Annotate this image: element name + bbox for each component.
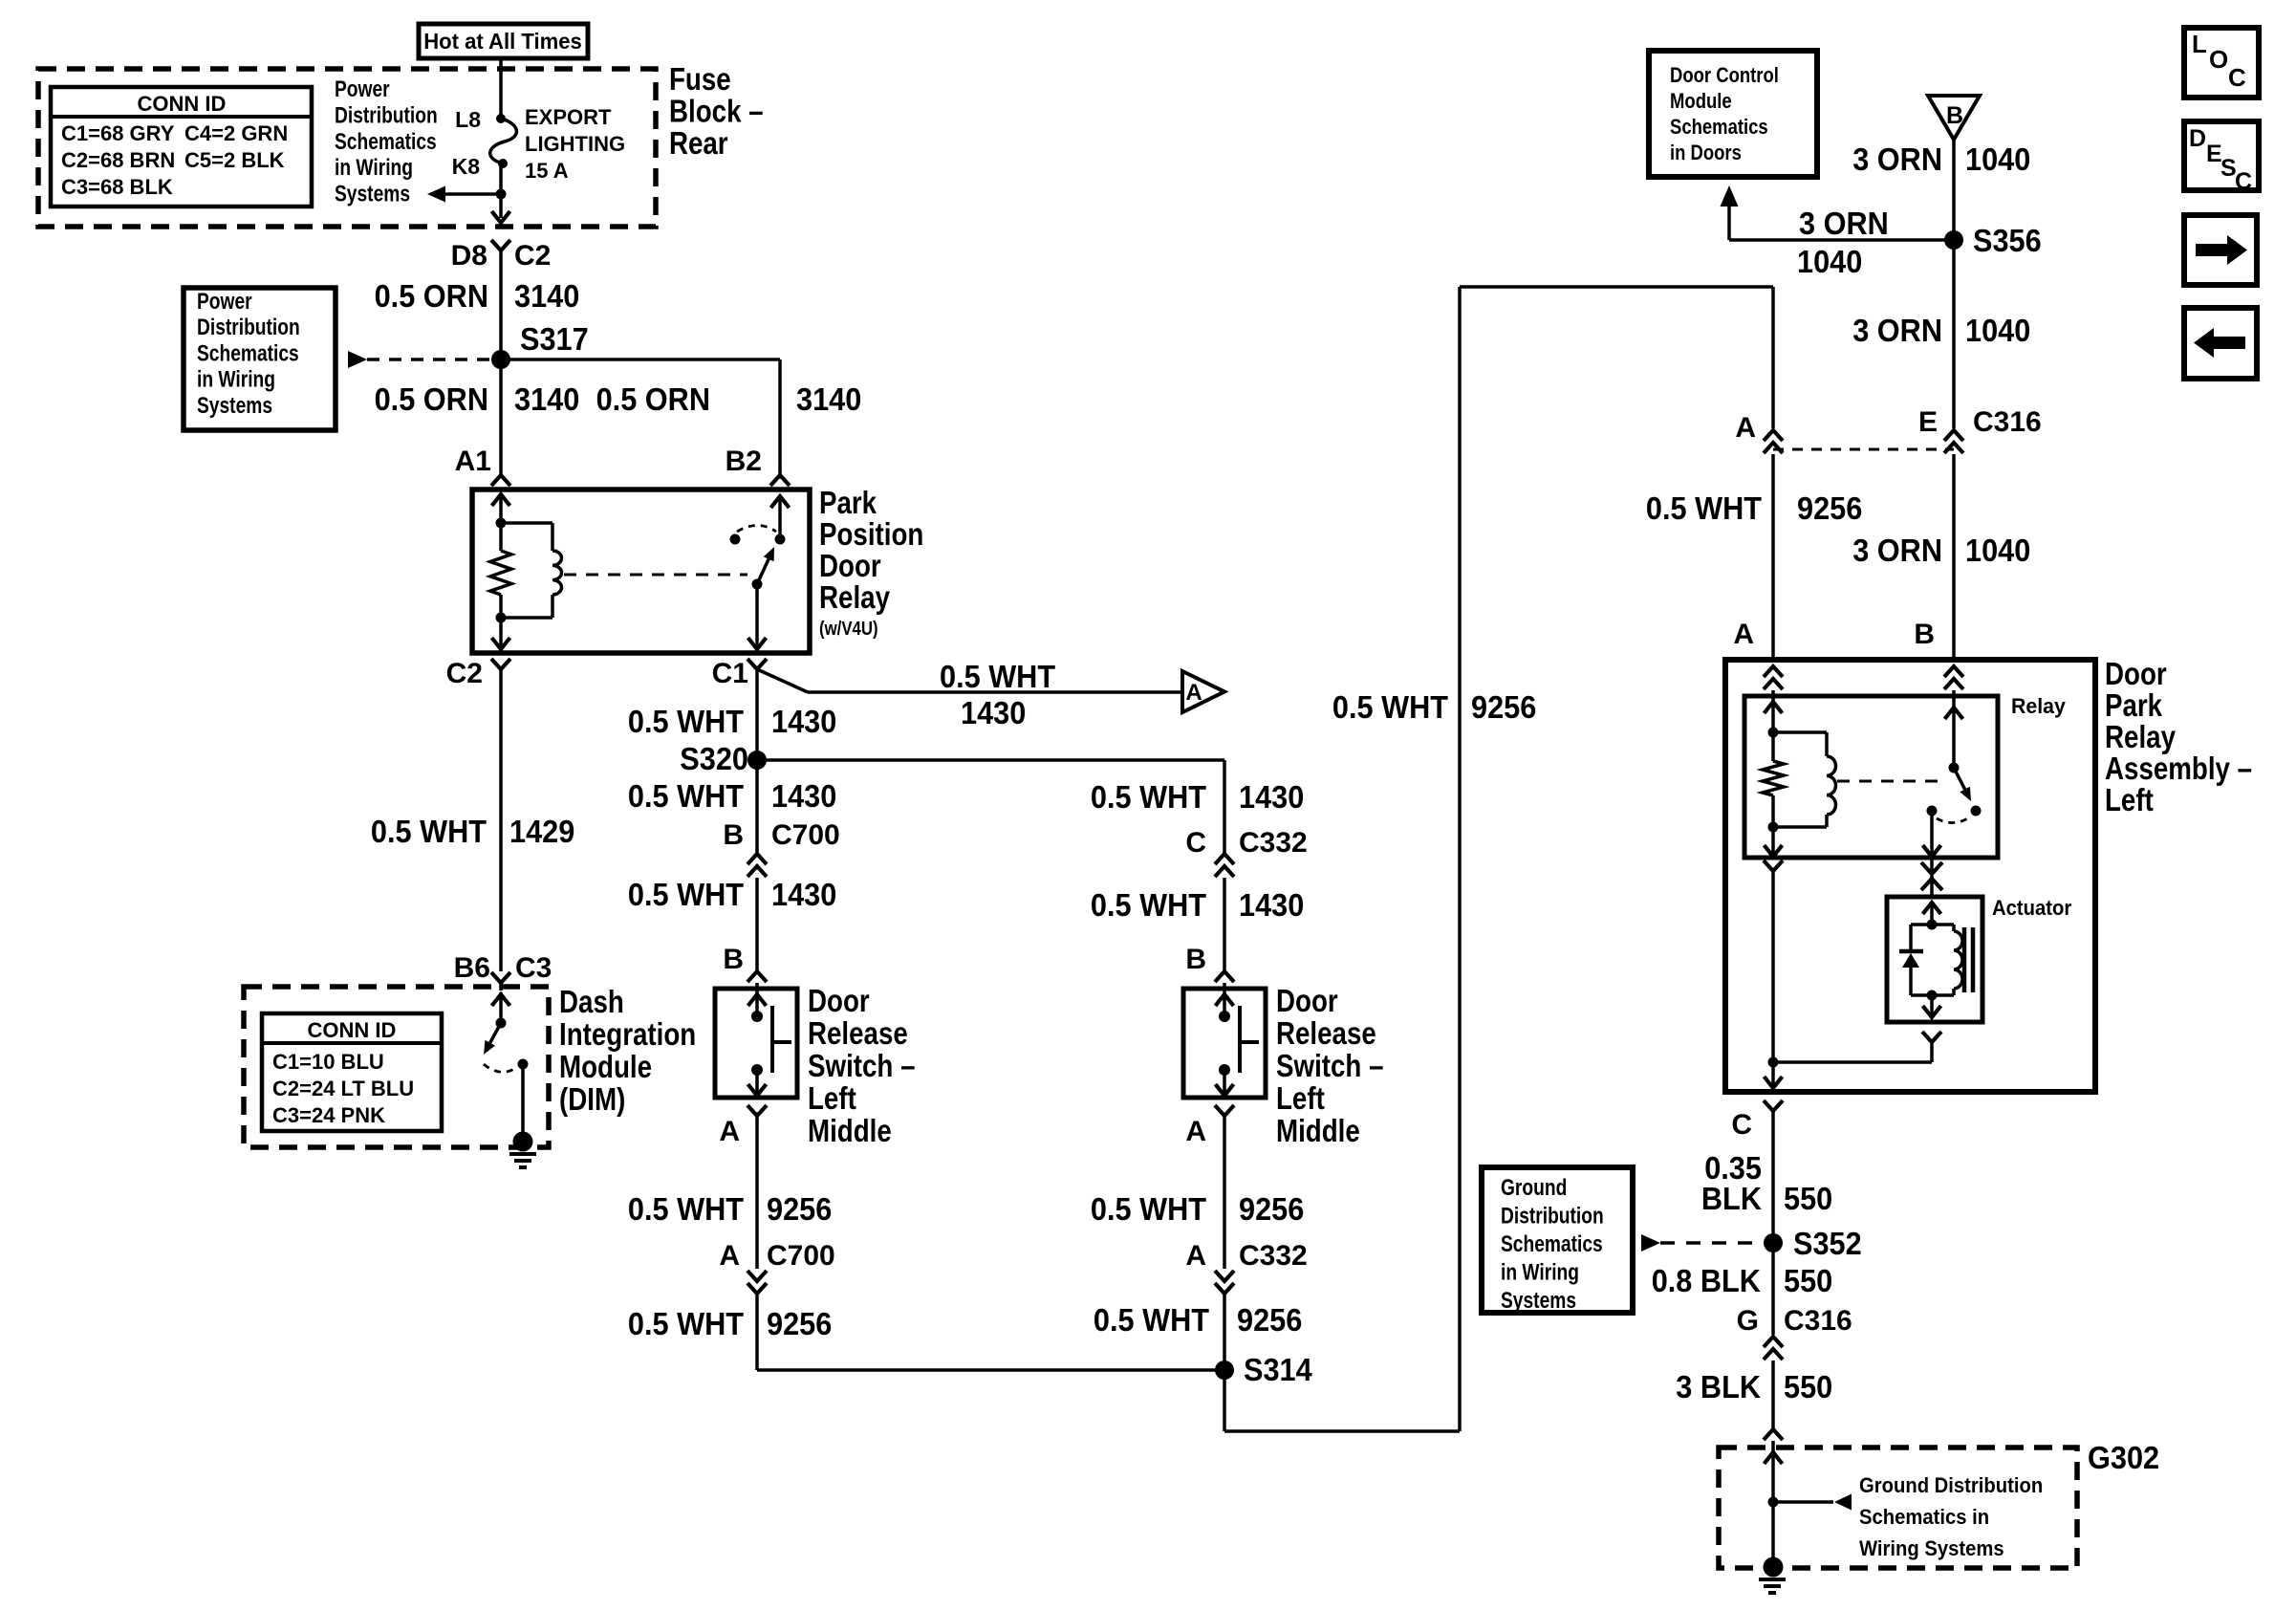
svg-text:C1=68 GRY: C1=68 GRY bbox=[61, 121, 175, 145]
actuator core bars bbox=[1962, 927, 1967, 992]
svg-text:0.5 WHT: 0.5 WHT bbox=[1091, 887, 1206, 923]
wire: C1 diagonal to 1430 branch bbox=[757, 669, 808, 692]
svg-text:Relay: Relay bbox=[2011, 694, 2067, 718]
svg-text:Schematics: Schematics bbox=[1501, 1231, 1603, 1257]
svg-text:Middle: Middle bbox=[808, 1113, 892, 1148]
svg-text:L: L bbox=[2192, 30, 2207, 58]
wire: right switch A down to C332 bbox=[1223, 1116, 1226, 1269]
connector chevron: fuse block bottom (D8/C2) bbox=[491, 240, 510, 250]
svg-text:C3=24 PNK: C3=24 PNK bbox=[272, 1103, 385, 1127]
svg-text:550: 550 bbox=[1784, 1181, 1832, 1216]
svg-text:Power: Power bbox=[197, 289, 252, 315]
svg-text:9256: 9256 bbox=[1797, 490, 1862, 526]
off-page connector triangle B bbox=[1928, 96, 1980, 140]
svg-text:in Wiring: in Wiring bbox=[1501, 1260, 1579, 1286]
wire: 0.5 ORN 3140 (fuse to S317) bbox=[499, 250, 503, 359]
junction in fuse block bbox=[496, 189, 507, 200]
svg-text:C: C bbox=[2235, 168, 2252, 195]
svg-text:Hot at All Times: Hot at All Times bbox=[423, 29, 582, 54]
wire: S320 right branch to C332 drop bbox=[757, 758, 1224, 762]
svg-text:0.5 WHT: 0.5 WHT bbox=[1094, 1302, 1209, 1338]
svg-text:Left: Left bbox=[808, 1080, 856, 1116]
relay switch contact dot (B2) bbox=[775, 534, 786, 545]
relay switch arm with arrowhead bbox=[752, 579, 763, 590]
svg-text:C700: C700 bbox=[767, 1240, 835, 1272]
svg-text:Switch –: Switch – bbox=[808, 1048, 916, 1083]
DIM switch travel dashed arc bbox=[484, 1064, 517, 1072]
wire: branch down to relay pin B2 bbox=[778, 359, 782, 475]
switch terminal arrow (top) bbox=[748, 994, 767, 1006]
svg-text:Door: Door bbox=[2105, 656, 2167, 691]
svg-text:K8: K8 bbox=[452, 154, 481, 179]
svg-text:0.5 WHT: 0.5 WHT bbox=[1332, 689, 1448, 725]
svg-text:C2=68 BRN: C2=68 BRN bbox=[61, 148, 175, 172]
svg-text:Left: Left bbox=[2105, 782, 2154, 817]
relay switch common to C1 bbox=[755, 584, 759, 649]
svg-text:Module: Module bbox=[1670, 89, 1732, 113]
svg-text:Relay: Relay bbox=[2105, 719, 2177, 754]
internal connector chevron (coil return) bbox=[1764, 860, 1783, 871]
splice S320 bbox=[747, 751, 767, 770]
connector chevron B (switch right) bbox=[1215, 971, 1234, 982]
inline connector C316 pin G (double chevron) bbox=[1764, 1337, 1783, 1347]
svg-text:A: A bbox=[1735, 412, 1756, 444]
svg-text:C: C bbox=[1185, 827, 1206, 859]
svg-text:C316: C316 bbox=[1784, 1305, 1852, 1337]
svg-text:C316: C316 bbox=[1973, 406, 2042, 438]
svg-text:A: A bbox=[1185, 1240, 1206, 1272]
inline connector C700 lower (double chevron down) bbox=[747, 1271, 767, 1281]
switch bottom terminal dot (right) bbox=[1219, 1064, 1230, 1076]
assembly connector chevron A bbox=[1764, 666, 1783, 677]
svg-text:S314: S314 bbox=[1244, 1352, 1312, 1387]
assembly connector chevron B bbox=[1944, 666, 1963, 677]
svg-text:C: C bbox=[1731, 1109, 1752, 1141]
svg-text:A: A bbox=[1733, 619, 1754, 650]
svg-text:D8: D8 bbox=[451, 240, 487, 272]
svg-text:A: A bbox=[1185, 680, 1202, 706]
svg-text:0.5 WHT: 0.5 WHT bbox=[628, 1191, 744, 1227]
splice S356 bbox=[1944, 230, 1963, 250]
wire: S317 right branch bbox=[501, 358, 780, 361]
svg-text:B: B bbox=[723, 819, 744, 851]
relay switch contact dots (assembly) bbox=[1971, 806, 1982, 816]
svg-text:3140: 3140 bbox=[796, 381, 861, 417]
actuator box bbox=[1887, 897, 1982, 1022]
note box: Door Control Module Schematics in Doors bbox=[1649, 51, 1817, 177]
svg-text:1430: 1430 bbox=[961, 695, 1026, 730]
note box: Power Distribution Schematics in Wiring Systems (S317) bbox=[184, 288, 336, 430]
svg-text:A: A bbox=[1185, 1116, 1206, 1147]
actuator exit chevron bbox=[1922, 1032, 1941, 1042]
svg-text:Block –: Block – bbox=[669, 94, 764, 129]
switch box: Door Release Switch - Left Middle (right) bbox=[1183, 989, 1266, 1098]
svg-text:C4=2 GRN: C4=2 GRN bbox=[184, 121, 288, 145]
svg-text:S317: S317 bbox=[520, 321, 589, 357]
DIM switch pivot dot bbox=[496, 1018, 507, 1029]
svg-text:LIGHTING: LIGHTING bbox=[525, 132, 625, 156]
svg-text:Wiring Systems: Wiring Systems bbox=[1859, 1536, 2004, 1560]
svg-text:0.5 WHT: 0.5 WHT bbox=[628, 877, 744, 912]
relay box: Park Position Door Relay bbox=[472, 490, 810, 653]
svg-text:Rear: Rear bbox=[669, 125, 728, 161]
connector chevron B2 bbox=[770, 475, 790, 486]
svg-text:1430: 1430 bbox=[771, 704, 836, 739]
wire: rail top to A drop bbox=[1460, 285, 1773, 289]
svg-text:G: G bbox=[1737, 1305, 1759, 1337]
connector chevron A1 bbox=[491, 475, 510, 486]
connector chevron A (below right switch) bbox=[1215, 1105, 1234, 1116]
fuse EXPORT LIGHTING 15A - pin L8 bbox=[496, 114, 506, 123]
svg-text:Schematics: Schematics bbox=[1670, 115, 1768, 139]
legend icon: DESC bbox=[2184, 121, 2259, 190]
svg-text:550: 550 bbox=[1784, 1263, 1832, 1298]
relay coil (assembly) bbox=[1773, 730, 1827, 734]
relay coil feed arrow (A1) bbox=[492, 494, 510, 506]
off-page connector triangle A bbox=[1182, 671, 1224, 712]
svg-text:S320: S320 bbox=[680, 741, 748, 776]
svg-text:C332: C332 bbox=[1239, 1240, 1308, 1272]
relay coil bottom node (assembly) bbox=[1768, 822, 1779, 833]
switch bottom terminal dot bbox=[751, 1064, 763, 1076]
relay coil top node bbox=[496, 518, 507, 529]
switch terminal arrow (top, right switch) bbox=[1216, 994, 1234, 1006]
svg-text:Switch –: Switch – bbox=[1276, 1048, 1384, 1083]
svg-text:Schematics: Schematics bbox=[335, 129, 437, 155]
relay coil (parallel) bbox=[501, 521, 552, 525]
internal connector X (relay to actuator) bbox=[1930, 858, 1934, 897]
svg-text:Schematics: Schematics bbox=[197, 340, 299, 366]
svg-text:15 A: 15 A bbox=[525, 159, 569, 183]
fuse pin K8 bbox=[498, 159, 508, 168]
wire: C2 down to DIM bbox=[499, 669, 503, 971]
svg-text:C5=2 BLK: C5=2 BLK bbox=[184, 148, 285, 172]
wire: drop to C316 pin A bbox=[1771, 287, 1775, 428]
relay switch common down (assembly) bbox=[1930, 811, 1934, 857]
svg-text:C1=10 BLU: C1=10 BLU bbox=[272, 1050, 384, 1074]
svg-text:3 BLK: 3 BLK bbox=[1676, 1369, 1761, 1404]
svg-text:Door: Door bbox=[1276, 983, 1338, 1018]
relay coil return arrow (C2) bbox=[499, 618, 503, 649]
svg-text:Park: Park bbox=[819, 485, 877, 520]
switch bottom arrow bbox=[755, 1070, 759, 1096]
actuator bottom arrow bbox=[1930, 995, 1934, 1017]
svg-text:Dash: Dash bbox=[559, 984, 624, 1019]
svg-text:3140: 3140 bbox=[514, 278, 579, 314]
svg-text:3140: 3140 bbox=[514, 381, 579, 417]
svg-text:Position: Position bbox=[819, 516, 923, 552]
relay switch pivot dot (assembly) bbox=[1949, 763, 1960, 773]
svg-text:0.5 WHT: 0.5 WHT bbox=[628, 778, 744, 814]
connector chevron C1 bbox=[747, 659, 767, 669]
arrowhead: ground note link bbox=[1834, 1494, 1852, 1511]
wire: C1 down to S320 bbox=[755, 669, 759, 760]
wire: S314 down and right to rail bbox=[1223, 1370, 1226, 1431]
svg-text:C2: C2 bbox=[514, 240, 551, 272]
svg-text:C700: C700 bbox=[771, 819, 840, 851]
svg-text:1040: 1040 bbox=[1965, 142, 2030, 177]
svg-text:1430: 1430 bbox=[1239, 779, 1304, 815]
svg-text:C1: C1 bbox=[712, 658, 748, 689]
svg-text:1430: 1430 bbox=[771, 877, 836, 912]
svg-text:S356: S356 bbox=[1973, 223, 2042, 258]
svg-text:9256: 9256 bbox=[767, 1306, 832, 1341]
svg-text:G302: G302 bbox=[2088, 1440, 2159, 1475]
svg-text:A: A bbox=[719, 1240, 740, 1272]
relay coil top node (assembly) bbox=[1768, 728, 1779, 738]
inline connector C700 (double chevron) bbox=[755, 760, 759, 854]
svg-text:E: E bbox=[1918, 406, 1938, 438]
ground terminal dot bbox=[1764, 1557, 1784, 1578]
svg-text:3 ORN: 3 ORN bbox=[1852, 142, 1942, 177]
svg-text:3 ORN: 3 ORN bbox=[1852, 533, 1942, 568]
svg-text:Door: Door bbox=[819, 548, 881, 583]
wire: battery feed into fuse block bbox=[499, 58, 503, 119]
relay switch travel dashed arc (assembly) bbox=[1937, 816, 1971, 823]
connector table CONN ID (fuse block) bbox=[51, 87, 312, 207]
module dashed box: Dash Integration Module (DIM) bbox=[244, 987, 549, 1147]
svg-text:B: B bbox=[1185, 944, 1206, 975]
wire: C332 to S314 bbox=[1223, 1294, 1226, 1370]
svg-text:(w/V4U): (w/V4U) bbox=[819, 619, 878, 640]
dashed connector line C316 bbox=[1773, 448, 1954, 451]
wire: S317 down to relay pin A1 bbox=[499, 359, 503, 475]
relay coil return arrow (assembly) bbox=[1771, 827, 1775, 857]
DIM switch contact dot bbox=[518, 1059, 529, 1070]
svg-text:in Wiring: in Wiring bbox=[197, 367, 275, 393]
svg-text:C3: C3 bbox=[515, 952, 552, 984]
inline connector C316 pin E (double chevron) bbox=[1944, 430, 1963, 441]
svg-text:Distribution: Distribution bbox=[1501, 1204, 1604, 1230]
relay resistor (assembly) bbox=[1771, 732, 1775, 761]
actuator diode bbox=[1911, 923, 1932, 926]
svg-text:Door Control: Door Control bbox=[1670, 63, 1779, 87]
wire: tap to Power Distribution Schematics (left arrow) bbox=[444, 192, 501, 196]
assembly exit arrow (C) bbox=[1771, 1062, 1775, 1088]
svg-text:9256: 9256 bbox=[1471, 689, 1536, 725]
relay switch NC contact dot bbox=[730, 534, 741, 545]
svg-text:S352: S352 bbox=[1793, 1226, 1862, 1261]
svg-text:C3=68 BLK: C3=68 BLK bbox=[61, 175, 173, 199]
relay actuation dashed link bbox=[564, 574, 747, 577]
note box: Ground Distribution Schematics in Wiring Systems bbox=[1482, 1167, 1633, 1313]
connector chevron B6/C3 bbox=[491, 972, 510, 983]
relay box (assembly inner) bbox=[1744, 696, 1998, 858]
splice S317 bbox=[491, 350, 510, 369]
wire: S356 left to Door Control Module bbox=[1729, 238, 1954, 242]
fuse block dashed box: Fuse Block - Rear bbox=[38, 69, 656, 227]
svg-text:3 ORN: 3 ORN bbox=[1852, 313, 1942, 348]
DIM switch entry arrow bbox=[492, 994, 510, 1006]
relay switch travel dashed arc bbox=[737, 526, 776, 533]
svg-text:Distribution: Distribution bbox=[335, 102, 438, 128]
svg-text:in Wiring: in Wiring bbox=[335, 155, 413, 181]
wire: to ground note bbox=[1773, 1500, 1833, 1504]
svg-text:1430: 1430 bbox=[1239, 887, 1304, 923]
switch bottom arrow (right) bbox=[1223, 1070, 1226, 1096]
svg-text:0.5 WHT: 0.5 WHT bbox=[371, 814, 487, 849]
DIM switch arm (open) bbox=[490, 1023, 501, 1043]
relay switch: B2 contact arrow bbox=[771, 496, 790, 508]
svg-text:B2: B2 bbox=[726, 446, 762, 477]
svg-text:1430: 1430 bbox=[771, 778, 836, 814]
switch plunger symbol bbox=[770, 1006, 774, 1073]
power label box: Hot at All Times bbox=[419, 24, 588, 58]
svg-text:0.8 BLK: 0.8 BLK bbox=[1652, 1263, 1761, 1298]
DIM internal ground wire bbox=[521, 1064, 525, 1136]
svg-text:0.5 WHT: 0.5 WHT bbox=[628, 704, 744, 739]
relay coil feed arrow (assembly) bbox=[1765, 702, 1783, 713]
svg-text:1040: 1040 bbox=[1965, 313, 2030, 348]
inline connector C332 (double chevron) bbox=[1215, 854, 1234, 864]
svg-text:Middle: Middle bbox=[1276, 1113, 1360, 1148]
assembly box: Door Park Relay Assembly - Left bbox=[1725, 660, 2095, 1092]
relay resistor bbox=[499, 523, 503, 551]
svg-text:CONN ID: CONN ID bbox=[308, 1018, 397, 1042]
svg-text:1429: 1429 bbox=[509, 814, 574, 849]
svg-text:1040: 1040 bbox=[1797, 244, 1862, 279]
arrowhead: fuse block output down bbox=[492, 211, 510, 223]
svg-text:0.5 WHT: 0.5 WHT bbox=[628, 1306, 744, 1341]
svg-text:L8: L8 bbox=[455, 107, 481, 132]
ground dashed box G302 bbox=[1719, 1448, 2077, 1568]
wire: S356 down to C316 pin E bbox=[1952, 240, 1956, 428]
svg-text:550: 550 bbox=[1784, 1369, 1832, 1404]
svg-text:0.5 WHT: 0.5 WHT bbox=[1091, 779, 1206, 815]
svg-text:Actuator: Actuator bbox=[1992, 896, 2072, 920]
wire: S352 to C316 pin G bbox=[1771, 1243, 1775, 1335]
relay switch arm with arrowhead (assembly) bbox=[1954, 768, 1965, 790]
svg-text:Assembly –: Assembly – bbox=[2105, 751, 2252, 786]
svg-text:0.5 ORN: 0.5 ORN bbox=[375, 381, 488, 417]
svg-text:9256: 9256 bbox=[1237, 1302, 1302, 1338]
wire: actuator return to common bbox=[1930, 1042, 1934, 1062]
actuator feed arrow bbox=[1923, 903, 1941, 914]
svg-text:D: D bbox=[2189, 125, 2206, 152]
relay coil bottom node bbox=[496, 613, 507, 623]
svg-text:BLK: BLK bbox=[1701, 1181, 1762, 1216]
svg-text:Distribution: Distribution bbox=[197, 315, 300, 340]
relay switch feed arrow (assembly B) bbox=[1945, 708, 1963, 719]
dashed wire: link to S317 bbox=[367, 358, 491, 361]
connector chevron A (below left switch) bbox=[747, 1105, 767, 1116]
legend icon: left arrow bbox=[2184, 308, 2257, 379]
svg-text:3 ORN: 3 ORN bbox=[1799, 206, 1889, 241]
svg-text:Relay: Relay bbox=[819, 579, 891, 615]
legend icon: LOC bbox=[2184, 28, 2259, 98]
svg-text:C: C bbox=[2228, 63, 2246, 92]
svg-text:Systems: Systems bbox=[197, 393, 272, 419]
splice S314 bbox=[1215, 1361, 1234, 1380]
actuator solenoid coil bbox=[1932, 923, 1954, 926]
switch plunger symbol (right) bbox=[1238, 1006, 1242, 1073]
arrowhead to S352 dashed link bbox=[1641, 1234, 1660, 1252]
connector chevron B (switch left) bbox=[747, 971, 767, 982]
relay actuation dashed link (assembly) bbox=[1837, 780, 1940, 783]
svg-text:1040: 1040 bbox=[1965, 533, 2030, 568]
arrowhead to Door Control Module bbox=[1721, 185, 1739, 207]
ground entry arrow bbox=[1765, 1452, 1783, 1464]
wire: fuse output bbox=[499, 163, 503, 218]
wire: 1430 to off-page triangle A bbox=[808, 690, 1182, 694]
svg-text:Park: Park bbox=[2105, 687, 2163, 723]
actuator bottom node bbox=[1927, 991, 1938, 1001]
dashed wire: link to S352 bbox=[1660, 1241, 1764, 1245]
svg-text:9256: 9256 bbox=[1239, 1191, 1304, 1227]
switch top terminal dot (right) bbox=[1219, 1011, 1230, 1022]
ground symbol bbox=[1759, 1578, 1786, 1581]
svg-text:Power: Power bbox=[335, 76, 390, 102]
wire: 9256 rail up bbox=[1458, 287, 1462, 1431]
svg-text:A1: A1 bbox=[455, 446, 491, 477]
assembly common node bbox=[1768, 1057, 1779, 1068]
svg-text:0.5 WHT: 0.5 WHT bbox=[1091, 1191, 1206, 1227]
svg-text:Systems: Systems bbox=[335, 182, 410, 207]
svg-text:C332: C332 bbox=[1239, 827, 1308, 859]
svg-text:Door: Door bbox=[808, 983, 870, 1018]
svg-text:0.5 WHT: 0.5 WHT bbox=[1646, 490, 1762, 526]
svg-text:0.5 ORN: 0.5 ORN bbox=[596, 381, 710, 417]
svg-text:B: B bbox=[1914, 619, 1935, 650]
wire: down to ground point bbox=[1771, 1502, 1775, 1560]
svg-text:Schematics in: Schematics in bbox=[1859, 1505, 1989, 1529]
actuator top node bbox=[1927, 920, 1938, 930]
wire: assembly C down to S352 bbox=[1771, 1111, 1775, 1242]
legend icon: right arrow bbox=[2184, 215, 2257, 285]
connector chevron (G302 entry) bbox=[1764, 1429, 1783, 1440]
connector chevron C2 bbox=[491, 659, 510, 669]
svg-text:Module: Module bbox=[559, 1049, 652, 1084]
ground junction node bbox=[1768, 1497, 1779, 1508]
wire: C316 E to assembly pin B bbox=[1952, 454, 1956, 660]
wire: B to S356 bbox=[1952, 140, 1956, 240]
svg-text:C2: C2 bbox=[446, 658, 483, 689]
connector table CONN ID (DIM) bbox=[262, 1013, 442, 1131]
svg-text:Release: Release bbox=[808, 1015, 908, 1051]
svg-text:O: O bbox=[2209, 45, 2228, 74]
svg-text:Release: Release bbox=[1276, 1015, 1376, 1051]
svg-text:Fuse: Fuse bbox=[669, 61, 731, 97]
wire: left switch A down to C700 bbox=[755, 1116, 759, 1269]
wire: C316 G down to G302 bbox=[1771, 1361, 1775, 1429]
svg-text:EXPORT: EXPORT bbox=[525, 105, 612, 129]
wire: C316 A to assembly pin A bbox=[1771, 454, 1775, 660]
wire: corner to S314 bbox=[757, 1368, 1224, 1372]
svg-text:Ground: Ground bbox=[1501, 1175, 1567, 1201]
svg-text:C2=24 LT BLU: C2=24 LT BLU bbox=[272, 1077, 414, 1100]
svg-text:Ground Distribution: Ground Distribution bbox=[1859, 1473, 2043, 1497]
svg-text:9256: 9256 bbox=[767, 1191, 832, 1227]
svg-text:B6: B6 bbox=[454, 952, 490, 984]
svg-text:in Doors: in Doors bbox=[1670, 141, 1742, 164]
svg-text:Integration: Integration bbox=[559, 1016, 696, 1052]
splice S352 bbox=[1764, 1233, 1783, 1252]
DIM ground symbol bbox=[509, 1152, 536, 1156]
svg-text:B: B bbox=[1946, 102, 1963, 129]
switch box: Door Release Switch - Left Middle (left) bbox=[715, 989, 797, 1098]
connector chevron C (assembly bottom) bbox=[1764, 1100, 1783, 1111]
wire: C700 to corner bbox=[755, 1294, 759, 1370]
svg-text:A: A bbox=[719, 1116, 740, 1147]
inline connector C332 lower (double chevron down) bbox=[1215, 1271, 1234, 1281]
svg-text:CONN ID: CONN ID bbox=[138, 92, 227, 116]
svg-text:(DIM): (DIM) bbox=[559, 1081, 625, 1117]
svg-text:Left: Left bbox=[1276, 1080, 1325, 1116]
svg-text:Systems: Systems bbox=[1501, 1288, 1576, 1314]
svg-text:B: B bbox=[723, 944, 744, 975]
svg-text:0.5 WHT: 0.5 WHT bbox=[940, 659, 1055, 694]
switch top terminal dot bbox=[751, 1011, 763, 1022]
